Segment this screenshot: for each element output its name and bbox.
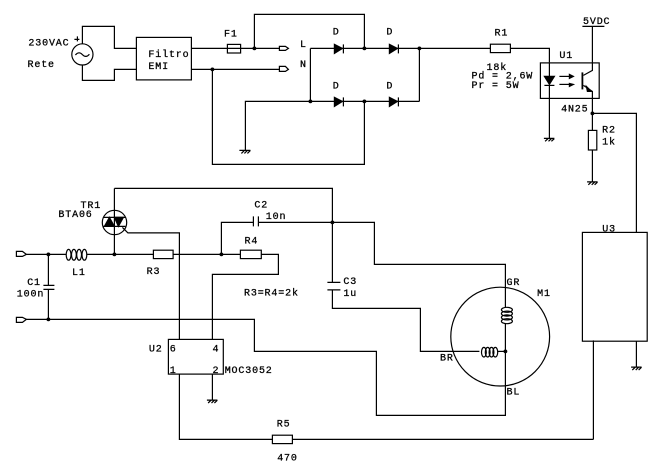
wire source bottom to EMI [82, 65, 136, 80]
svg-text:R1: R1 [495, 29, 509, 40]
diode D top-right [389, 44, 397, 53]
ground (U3) [631, 367, 642, 370]
triac TR1 bottom bar [103, 225, 125, 227]
junction TR1 bottom [113, 253, 117, 257]
junction F1-L [253, 47, 257, 51]
svg-text:BTA06: BTA06 [58, 210, 92, 221]
svg-text:5VDC: 5VDC [583, 17, 610, 28]
svg-text:D: D [386, 28, 393, 39]
wire C2 right to junction [258, 221, 332, 223]
svg-text:2: 2 [213, 366, 220, 377]
wire junction to motor GR [332, 222, 505, 307]
wire source top to EMI [82, 26, 136, 48]
svg-text:C1: C1 [27, 278, 41, 289]
wire EMI to N terminal [191, 68, 279, 70]
U1 collector wire up to 5VDC [583, 26, 592, 75]
svg-text:R3: R3 [147, 267, 161, 278]
resistor R5 body [272, 435, 292, 443]
source V1 230VAC circle [72, 44, 93, 65]
svg-text:M1: M1 [537, 289, 551, 300]
EMI filter box [136, 37, 191, 80]
diode D bottom-left [334, 97, 342, 106]
junction motor center [504, 350, 508, 354]
svg-text:U3: U3 [602, 224, 616, 235]
diode D bottom-right [389, 97, 397, 106]
svg-text:R5: R5 [277, 420, 291, 431]
svg-text:L: L [300, 40, 307, 51]
bridge left wire [309, 48, 311, 101]
svg-text:BL: BL [507, 388, 521, 399]
junction C1 bottom [47, 318, 51, 322]
ground (U2 pin2) [207, 400, 218, 403]
wire bridge output to R1 [419, 47, 490, 49]
wire bottom rail to motor BL [26, 319, 505, 415]
U2 box [168, 339, 223, 374]
wire C1 top [47, 254, 49, 285]
wire F1 junction up and over to bridge mid [254, 14, 364, 48]
capacitor C1 plates [43, 285, 54, 289]
ground (mains) [239, 150, 250, 153]
resistor R3 body [153, 250, 173, 258]
svg-text:Rete: Rete [28, 60, 55, 71]
wire R2 to ground [591, 150, 593, 182]
wire U2 pin 1 to R5 [179, 374, 272, 439]
bridge top rail wire [310, 47, 419, 49]
junction bridge output [418, 47, 422, 51]
U1 LED cathode bar [544, 84, 554, 86]
wire U2 pin 2 to ground [211, 374, 213, 400]
svg-text:1: 1 [170, 366, 177, 377]
triac TR1 circle [102, 210, 126, 234]
resistor R2 body [588, 130, 596, 150]
junction C2 C3 GR [331, 221, 335, 225]
svg-text:BR: BR [440, 353, 454, 364]
source V1 sine [75, 53, 89, 57]
capacitor C3 plates [327, 282, 340, 290]
svg-text:EMI: EMI [148, 62, 169, 73]
junction U1 emitter [591, 112, 595, 116]
wire BR winding to center [497, 350, 505, 352]
svg-text:1u: 1u [343, 289, 357, 300]
svg-text:D: D [386, 81, 393, 92]
svg-text:R3=R4=2k: R3=R4=2k [244, 288, 299, 300]
svg-text:1k: 1k [602, 137, 616, 149]
inductor L1 [66, 249, 87, 260]
junction bridge top mid [363, 47, 367, 51]
U1 LED triangle [544, 76, 554, 84]
triac TR1 left triangle [104, 217, 114, 226]
junction N drop [211, 68, 215, 72]
motor M1 circle [451, 287, 550, 386]
wire emitter junction to U3 top [592, 113, 636, 232]
source V1 plus sign [74, 36, 79, 41]
svg-text:U2: U2 [149, 344, 163, 355]
triac TR1 vertical wire [113, 188, 115, 254]
wire R3R4 junction up to C2 [221, 222, 253, 254]
wire U3 bottom to ground [635, 341, 637, 367]
wire emitter junction to R2 [591, 113, 593, 130]
wire N junction down and over to bridge bottom mid [212, 69, 364, 164]
wire TR1 top to C2 junction [114, 188, 332, 222]
wire C1 bottom [47, 289, 49, 319]
U1 emitter wire down to junction [583, 85, 592, 113]
wire R1 to U1 anode [510, 48, 549, 62]
svg-text:L1: L1 [72, 268, 86, 279]
junction bridge bottom left [309, 100, 313, 104]
5VDC underline [582, 25, 604, 27]
svg-text:230VAC: 230VAC [28, 39, 69, 50]
U1 LED cathode wire to ground [548, 85, 550, 138]
svg-text:U1: U1 [559, 51, 573, 62]
fuse F1 body [227, 44, 240, 53]
U1 phototransistor base bar [581, 72, 583, 89]
U1 light arrow lower [559, 83, 569, 85]
junction R3 R4 C2 [220, 253, 224, 257]
wire junction down to C3 [331, 222, 333, 282]
svg-text:Pr = 5W: Pr = 5W [472, 81, 520, 92]
wire U3 bottom left down to R5 line [592, 340, 594, 439]
U1 LED anode wire [548, 62, 550, 76]
svg-text:4: 4 [213, 344, 220, 355]
svg-text:GR: GR [507, 278, 521, 289]
diode D top-left [334, 44, 342, 53]
svg-text:F1: F1 [224, 30, 238, 41]
wire R3 to R4 [173, 253, 240, 255]
svg-text:4N25: 4N25 [561, 104, 588, 115]
bridge bottom rail wire [310, 100, 419, 102]
resistor R1 body [490, 44, 510, 52]
wire C3 bottom to motor BR [332, 290, 479, 352]
svg-text:MOC3052: MOC3052 [225, 366, 273, 377]
wire R4 wrap to U2 pin 4 [212, 254, 278, 339]
svg-text:100n: 100n [17, 289, 44, 300]
svg-text:C3: C3 [343, 277, 357, 288]
svg-text:N: N [300, 60, 307, 71]
optocoupler U1 box [540, 63, 599, 99]
U1 light arrow upper [559, 75, 569, 77]
motor GR winding [501, 307, 512, 323]
svg-text:R4: R4 [245, 237, 259, 248]
svg-text:D: D [333, 81, 340, 92]
wire ground to bridge bottom left [245, 101, 310, 150]
svg-text:D: D [333, 28, 340, 39]
U3 box [582, 232, 647, 341]
wire L1 to R3 [86, 253, 153, 255]
motor BR winding [482, 347, 498, 357]
junction bridge bottom mid [363, 100, 367, 104]
triac TR1 top bar [103, 216, 125, 218]
wire terminal to L1 [26, 253, 66, 255]
svg-text:10n: 10n [266, 212, 287, 223]
svg-text:R2: R2 [602, 126, 616, 137]
wire R5 to U3 bottom [292, 438, 593, 440]
resistor R4 body [240, 250, 261, 258]
triac TR1 gate wire to U2 pin 6 [122, 227, 179, 339]
svg-text:470: 470 [277, 453, 298, 464]
U1 emitter arrow [586, 86, 591, 91]
ground (U1 LED) [544, 138, 555, 141]
triac TR1 right triangle [114, 217, 123, 226]
wire EMI to fuse F1 and L terminal [191, 47, 279, 49]
connector terminal lower-left top [16, 251, 26, 256]
ground (R2) [587, 182, 598, 185]
svg-text:Filtro: Filtro [148, 49, 189, 61]
capacitor C2 plates [253, 216, 258, 226]
svg-text:6: 6 [170, 344, 177, 355]
connector terminal L [279, 46, 288, 50]
bridge right wire [418, 48, 420, 101]
junction L1 left [47, 253, 51, 257]
wire GR winding to center [504, 323, 506, 351]
svg-text:C2: C2 [254, 201, 268, 212]
connector terminal N [279, 66, 288, 71]
connector terminal lower-left bottom [16, 317, 26, 322]
